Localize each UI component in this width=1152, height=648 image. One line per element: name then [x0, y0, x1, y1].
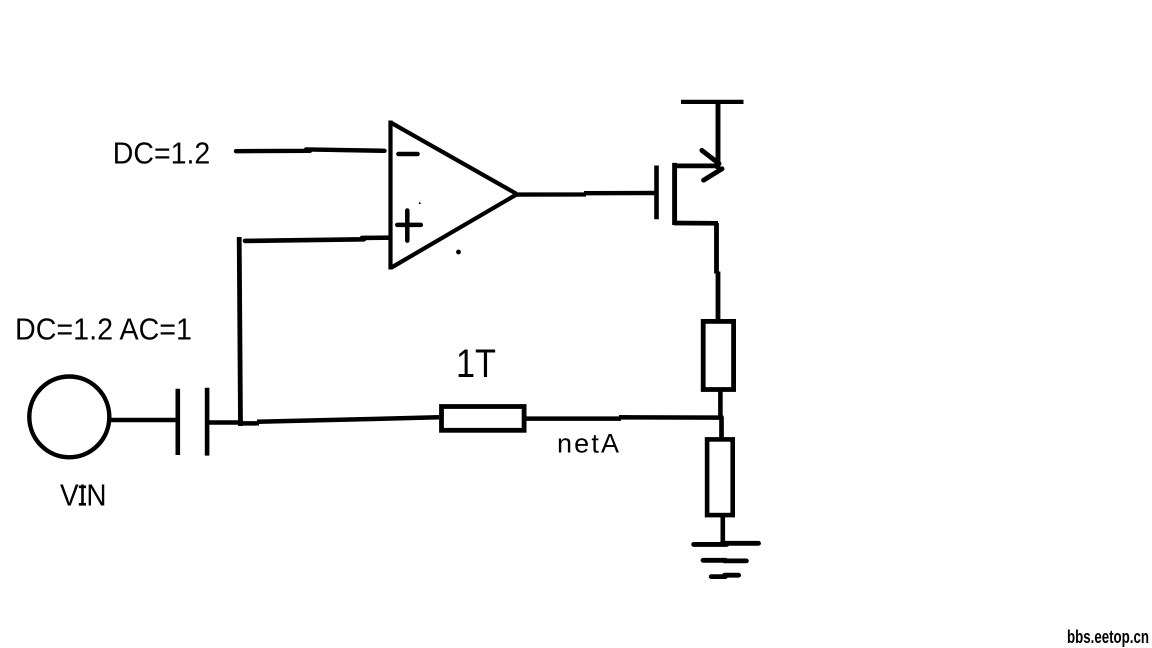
wire transistor drain down to R2 — [717, 223, 719, 320]
transistor M1 gate bar — [654, 166, 659, 220]
wire non-inverting input — [245, 238, 388, 241]
op-amp U1 plus symbol — [397, 211, 421, 241]
wire R3 to ground — [720, 517, 725, 542]
stray dot near plus — [419, 202, 421, 204]
ground symbol bar 3 — [711, 575, 738, 576]
stray dot below hypotenuse — [456, 250, 461, 255]
ground symbol bar 1 — [694, 543, 759, 544]
transistor M1 channel bar — [672, 163, 677, 225]
wire op-amp output to gate — [516, 193, 656, 195]
transistor M1 arrow head — [702, 150, 722, 180]
svg-text:bbs.eetop.cn: bbs.eetop.cn — [1067, 626, 1149, 647]
svg-text:DC=1.2: DC=1.2 — [113, 136, 211, 171]
wire DC=1.2 to op-amp inverting input — [236, 149, 385, 151]
wire netA junction down to R3 — [719, 417, 724, 441]
svg-text:DC=1.2 AC=1: DC=1.2 AC=1 — [15, 312, 192, 347]
wire supply down to transistor — [716, 102, 721, 170]
op-amp U1 triangle body — [391, 121, 517, 270]
op-amp U1 minus symbol — [399, 152, 418, 157]
wire vertical feedback from cap node up to plus input — [239, 237, 240, 426]
transistor M1 top terminal horizontal — [674, 164, 719, 169]
transistor M1 bottom terminal horizontal — [674, 221, 718, 226]
wire VIN to capacitor — [108, 418, 178, 422]
svg-text:netA: netA — [557, 429, 619, 459]
capacitor C1 right plate — [205, 388, 210, 456]
svg-text:1T: 1T — [456, 342, 496, 386]
source VIN circle — [29, 377, 109, 458]
capacitor C1 left plate — [176, 389, 181, 455]
wire node to resistor 1T — [243, 417, 440, 423]
supply rail bar — [681, 100, 744, 104]
label VIN letter I serifs — [79, 487, 86, 505]
wire R1 to netA junction — [526, 417, 723, 418]
resistor R2 body — [703, 321, 733, 389]
resistor R3 body — [707, 439, 733, 515]
wire R2 to netA junction — [718, 391, 723, 419]
wire capacitor to node junction — [209, 420, 243, 425]
ground symbol bar 2 — [703, 558, 746, 563]
svg-text:VIN: VIN — [60, 478, 107, 513]
resistor R1 1T body — [442, 407, 525, 431]
